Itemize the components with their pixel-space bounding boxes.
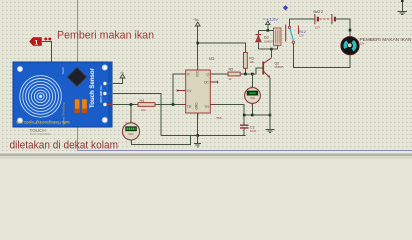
pin stubs xyxy=(107,84,113,105)
svg-text:1: 1 xyxy=(35,40,39,47)
orange capacitors xyxy=(75,99,80,113)
node: meter2 junction xyxy=(251,73,254,76)
pin CV stub xyxy=(178,90,186,92)
touch sensor board xyxy=(13,62,113,127)
wire: mid net to ground2 xyxy=(244,114,270,116)
mounting holes xyxy=(17,66,22,71)
svg-text:555: 555 xyxy=(217,116,222,120)
op: 555 timer U1 xyxy=(177,56,222,120)
canvas background xyxy=(0,0,412,159)
wire: relay contact to motor bottom loop xyxy=(294,43,351,67)
wire: battery left to relay pole xyxy=(289,19,315,26)
wire: vcc branch to R3 xyxy=(198,43,246,53)
wire: board pin1 to +5v arrow xyxy=(112,78,123,84)
wire: bottom ground net xyxy=(161,135,245,137)
svg-text:OUT GND Vcc: OUT GND Vcc xyxy=(99,85,103,103)
wire: meter1 top lead xyxy=(130,105,132,124)
ground symbol (emitter) xyxy=(266,115,275,133)
wire: meter2 bottom lead xyxy=(251,104,253,115)
svg-text:12V: 12V xyxy=(315,25,320,29)
svg-text:BAT2: BAT2 xyxy=(313,9,323,14)
svg-text:VCC: VCC xyxy=(195,70,199,77)
svg-text:TH: TH xyxy=(205,105,210,109)
power symbol (relay 12v) xyxy=(266,21,270,25)
svg-text:www.TheEngineeringProjects.com: www.TheEngineeringProjects.com xyxy=(16,120,69,125)
svg-text:=+12v: =+12v xyxy=(263,18,279,22)
wire: battery right to motor xyxy=(335,19,350,36)
wire: board pin2 to ground net xyxy=(112,94,161,136)
svg-text:Volts: Volts xyxy=(250,97,256,100)
node: relay top junction xyxy=(267,29,270,32)
svg-text:+: + xyxy=(125,121,127,125)
wire: Q2 emitter down xyxy=(269,78,271,115)
wire: D3 relay loop top xyxy=(258,29,273,31)
wire: TH to C1 xyxy=(210,105,244,125)
motor (fish feeder) xyxy=(341,29,359,55)
svg-text:DC: DC xyxy=(204,80,209,84)
svg-text:TOUCH SENSOR: TOUCH SENSOR xyxy=(30,132,51,136)
wire: 555 gnd pin down xyxy=(197,113,199,136)
svg-text:10k: 10k xyxy=(141,108,146,112)
wire: relay power arrow stub xyxy=(267,25,269,31)
pin Q stub xyxy=(210,73,215,75)
wire: Q output to R5 xyxy=(210,73,228,75)
wire: toggle to board xyxy=(42,42,52,64)
svg-text:Q2: Q2 xyxy=(275,61,280,65)
svg-text:+5v: +5v xyxy=(193,18,199,22)
transistor Q2 xyxy=(263,58,284,78)
svg-text:Touch Sensor: Touch Sensor xyxy=(89,68,96,108)
ground symbol (555) xyxy=(194,136,201,147)
svg-text:1N4007: 1N4007 xyxy=(264,39,274,43)
svg-text:TR: TR xyxy=(187,105,192,109)
resistor R3 xyxy=(244,53,255,69)
resistor R4 xyxy=(138,99,155,112)
pin DC stub xyxy=(210,81,217,84)
node: C1 junction xyxy=(243,114,246,117)
svg-text:12V: 12V xyxy=(299,33,304,37)
ground symbol (top right) xyxy=(398,0,408,15)
wire: reset branch vertical xyxy=(173,74,186,105)
node: R3 junction xyxy=(244,73,247,76)
wire: R5 to Q2 base jog xyxy=(240,68,262,74)
svg-text:GND: GND xyxy=(194,102,198,110)
wire: R3 bottom xyxy=(244,68,246,74)
node: vcc junction xyxy=(196,42,199,45)
svg-text:RL2: RL2 xyxy=(299,30,306,34)
power symbol +5v (555) xyxy=(195,22,200,26)
node: meter2 bottom junction xyxy=(251,114,254,117)
wire: D3 leads xyxy=(257,30,259,49)
power symbol +5v (board) xyxy=(120,74,125,78)
svg-text:Touch: Touch xyxy=(61,67,65,74)
svg-text:D3: D3 xyxy=(264,36,269,40)
svg-text:PEMBERI MAKAN IKAN: PEMBERI MAKAN IKAN xyxy=(360,37,412,42)
pin TH stub xyxy=(210,104,215,106)
node: meter1 junction xyxy=(130,103,133,106)
chip xyxy=(68,68,87,87)
power rail diamond (blue) xyxy=(283,5,288,10)
sheet border xyxy=(78,0,412,151)
svg-text:Pemberi makan ikan: Pemberi makan ikan xyxy=(57,30,154,42)
voltmeter 2 xyxy=(245,85,261,106)
svg-text:U1: U1 xyxy=(209,56,215,61)
svg-text:10k: 10k xyxy=(249,60,254,64)
capacitor C1 xyxy=(240,125,257,133)
relay RL2 xyxy=(274,25,306,46)
voltmeter 1 xyxy=(122,121,139,144)
wire: +5v rail to 555 vcc xyxy=(197,26,199,66)
logic toggle 1 xyxy=(30,38,52,47)
bottom window band xyxy=(0,152,412,160)
svg-text:2N6045: 2N6045 xyxy=(275,65,285,69)
battery BAT2 xyxy=(313,9,335,30)
wire: R4 right to TR pin xyxy=(155,104,186,106)
node: reset/trigger junction xyxy=(172,103,175,106)
wire: meter1 bottom rail xyxy=(132,136,191,145)
svg-text:10uF: 10uF xyxy=(250,129,257,133)
wire: meter2 top lead xyxy=(251,74,253,87)
node: collector junction xyxy=(270,48,273,51)
node: emitter junction xyxy=(269,114,272,117)
svg-text:12v: 12v xyxy=(360,42,365,46)
resistor R5 xyxy=(228,68,240,81)
diode D3 xyxy=(256,35,274,44)
node: gnd junction xyxy=(196,134,199,137)
svg-text:R5: R5 xyxy=(229,68,234,72)
wire: board pin3 / trigger line xyxy=(112,104,138,106)
wire: D3 relay loop bottom xyxy=(258,46,277,50)
wire: Q2 collector up xyxy=(270,49,272,58)
svg-text:Volts: Volts xyxy=(128,133,134,136)
wire: C1 bottom lead xyxy=(243,128,245,135)
svg-text:R4: R4 xyxy=(140,99,145,103)
touch pad rings xyxy=(20,76,62,118)
pin pads xyxy=(103,82,106,85)
svg-text:-: - xyxy=(125,140,126,144)
svg-text:diletakan di dekat kolam: diletakan di dekat kolam xyxy=(10,139,119,151)
